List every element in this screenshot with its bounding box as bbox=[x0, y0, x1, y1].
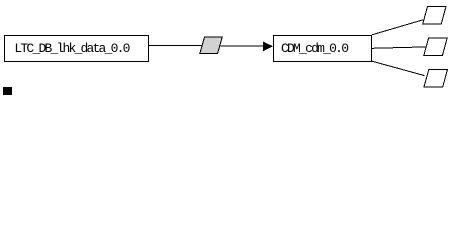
wire CDM box to middle parallelogram bbox=[372, 47, 426, 48]
svg-text:CDM_cdm_0.0: CDM_cdm_0.0 bbox=[281, 41, 349, 56]
bottom output parallelogram bbox=[424, 69, 448, 87]
gray parallelogram (transform node) bbox=[200, 37, 222, 53]
wire CDM box to bottom parallelogram bbox=[372, 61, 425, 75]
svg-text:LTC_DB_lhk_data_0.0: LTC_DB_lhk_data_0.0 bbox=[14, 41, 130, 56]
middle output parallelogram bbox=[424, 38, 447, 56]
node CDM_cdm_0.0 box bbox=[274, 36, 372, 62]
top output parallelogram bbox=[423, 7, 446, 25]
bottom-left artifact square bbox=[3, 87, 12, 95]
arrowhead into CDM box bbox=[263, 42, 273, 52]
wire gray parallelogram to CDM box bbox=[221, 45, 264, 47]
node LTC_DB_lhk_data_0.0 box bbox=[5, 36, 149, 62]
wire left box to gray parallelogram bbox=[149, 45, 203, 47]
wire CDM box to top parallelogram bbox=[372, 20, 423, 35]
